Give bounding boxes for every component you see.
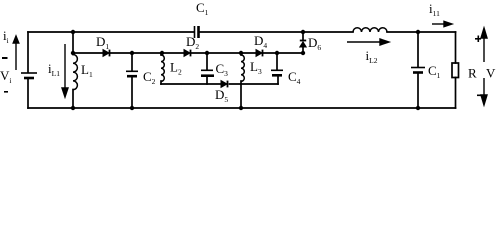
svg-text:R: R: [468, 66, 477, 81]
svg-text:D6: D6: [308, 35, 321, 52]
svg-text:L2: L2: [170, 60, 182, 77]
svg-text:Vi: Vi: [0, 68, 11, 85]
svg-text:iL1: iL1: [48, 61, 60, 78]
svg-text:C4: C4: [288, 69, 301, 86]
svg-text:C2: C2: [143, 69, 156, 86]
svg-text:V: V: [486, 66, 496, 81]
svg-text:C1: C1: [428, 63, 441, 80]
svg-text:D4: D4: [254, 33, 267, 50]
svg-text:C3: C3: [216, 61, 229, 78]
svg-text:i11: i11: [429, 1, 440, 18]
svg-text:D1: D1: [96, 34, 109, 51]
svg-text:L1: L1: [81, 62, 93, 79]
svg-text:D5: D5: [215, 87, 228, 104]
svg-text:C1: C1: [196, 0, 209, 17]
svg-text:L3: L3: [250, 59, 262, 76]
svg-text:iL2: iL2: [366, 48, 378, 65]
svg-text:ii: ii: [3, 28, 9, 45]
